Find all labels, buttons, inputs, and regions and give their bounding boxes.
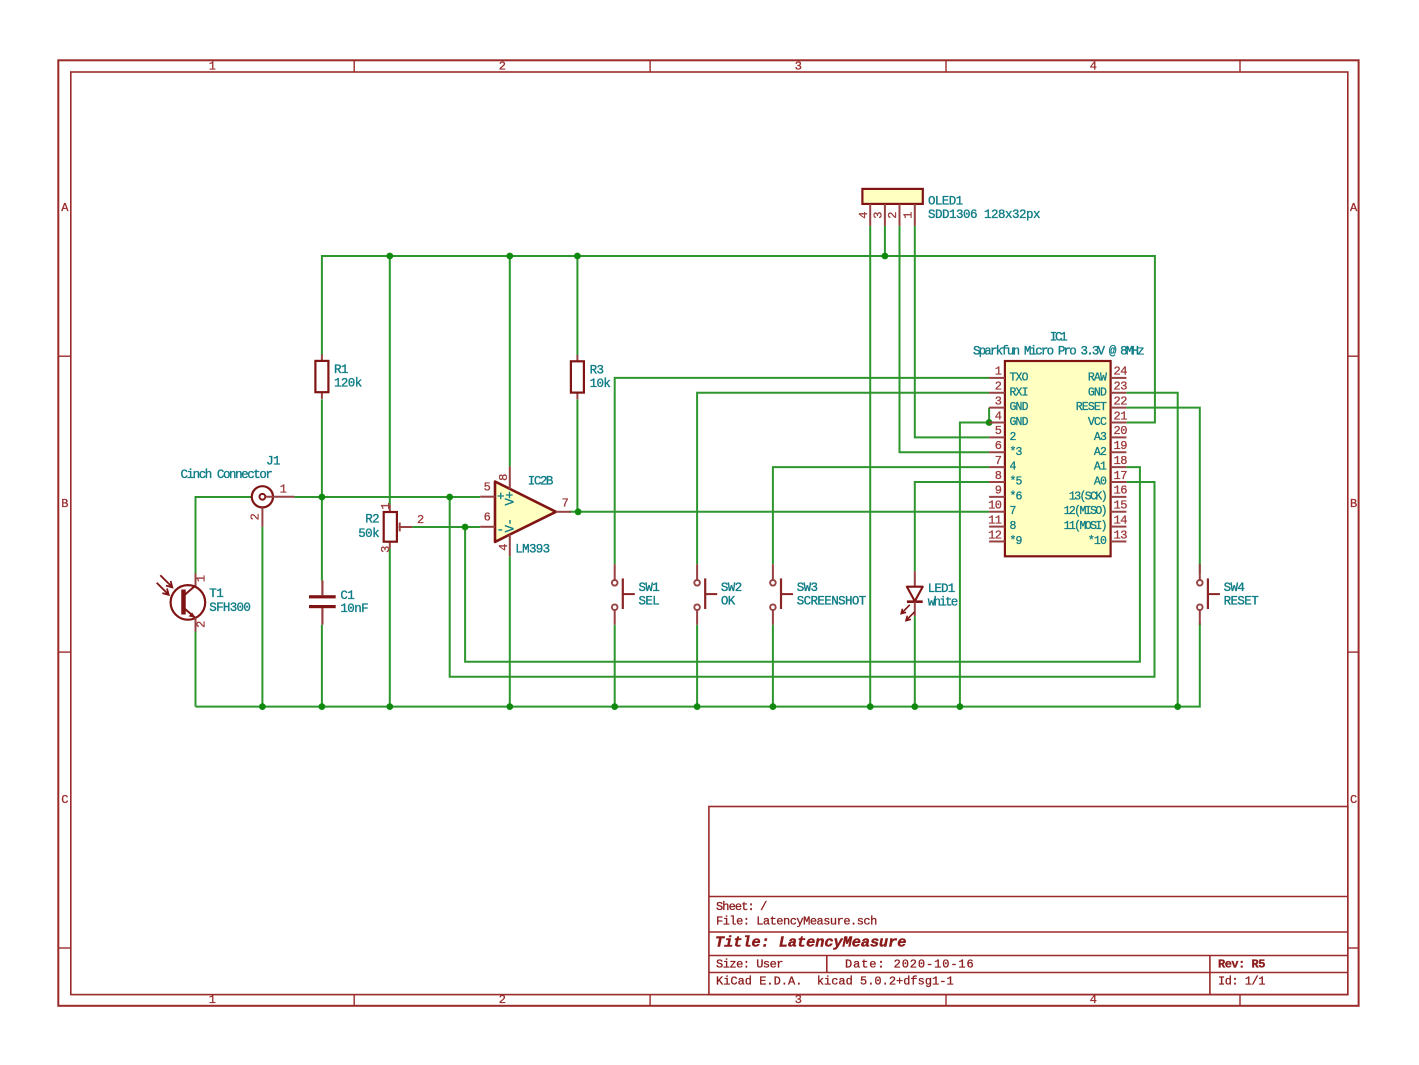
svg-text:3: 3 xyxy=(379,546,393,553)
svg-text:2: 2 xyxy=(499,993,506,1007)
frame row labels A-C left/right xyxy=(61,201,1358,807)
svg-text:1: 1 xyxy=(209,60,216,74)
wire OLED1 pin4 to GND bus xyxy=(869,226,871,707)
switch SW4 xyxy=(1197,564,1259,625)
wire IC1 pin7 to SW3 xyxy=(773,467,989,564)
svg-text:2: 2 xyxy=(995,380,1002,394)
svg-text:4: 4 xyxy=(497,544,511,551)
svg-text:13(SCK): 13(SCK) xyxy=(1069,490,1106,503)
svg-text:SW4: SW4 xyxy=(1224,581,1245,595)
svg-text:A1: A1 xyxy=(1094,461,1107,474)
svg-text:*6: *6 xyxy=(1010,490,1023,503)
svg-text:15: 15 xyxy=(1114,499,1128,513)
svg-text:A2: A2 xyxy=(1094,446,1107,459)
svg-text:23: 23 xyxy=(1114,380,1128,394)
svg-text:1: 1 xyxy=(995,365,1002,379)
svg-text:8: 8 xyxy=(1010,520,1017,533)
LED LED1 xyxy=(901,571,958,620)
svg-text:SFH300: SFH300 xyxy=(209,601,250,615)
wire IC1 pin2 RXI to SW2 xyxy=(697,393,989,564)
svg-text:6: 6 xyxy=(484,511,491,525)
svg-text:120k: 120k xyxy=(334,377,362,391)
svg-text:OLED1: OLED1 xyxy=(928,194,963,208)
svg-text:B: B xyxy=(1350,497,1357,511)
svg-text:C: C xyxy=(61,793,68,807)
svg-text:3: 3 xyxy=(995,394,1002,408)
svg-text:3: 3 xyxy=(872,212,886,219)
svg-text:LM393: LM393 xyxy=(515,543,549,557)
svg-text:*9: *9 xyxy=(1010,535,1023,548)
svg-text:SCREENSHOT: SCREENSHOT xyxy=(797,595,867,609)
wire R2 wiper to op-amp pin6 xyxy=(412,526,480,528)
svg-text:8: 8 xyxy=(497,474,511,481)
svg-text:12(MISO): 12(MISO) xyxy=(1064,505,1106,518)
potentiometer R2 xyxy=(358,503,424,553)
svg-text:SDD1306 128x32px: SDD1306 128x32px xyxy=(928,208,1040,222)
phototransistor T1 xyxy=(157,574,251,632)
svg-text:3: 3 xyxy=(795,60,802,74)
svg-text:GND: GND xyxy=(1088,386,1107,399)
svg-text:19: 19 xyxy=(1114,439,1128,453)
svg-text:4: 4 xyxy=(1010,461,1017,474)
wire OLED1 pin1 to IC1 pin5 xyxy=(915,226,989,437)
svg-text:12: 12 xyxy=(988,528,1002,542)
svg-text:1: 1 xyxy=(209,993,216,1007)
wire IC1 pin22 RESET to SW4 xyxy=(1126,408,1199,574)
svg-text:SEL: SEL xyxy=(639,595,660,609)
svg-text:5: 5 xyxy=(484,481,491,495)
IC U1 Sparkfun Micro Pro xyxy=(973,331,1144,557)
svg-text:V-: V- xyxy=(503,519,517,533)
svg-text:GND: GND xyxy=(1010,401,1029,414)
svg-text:Sparkfun Micro Pro 3.3V @ 8MHz: Sparkfun Micro Pro 3.3V @ 8MHz xyxy=(973,344,1144,358)
svg-text:1: 1 xyxy=(195,575,209,582)
wire top VCC bus R1 to IC1 pin 21 xyxy=(322,256,1155,423)
svg-text:7: 7 xyxy=(562,496,569,510)
svg-text:2: 2 xyxy=(886,212,900,219)
svg-text:10: 10 xyxy=(988,499,1002,513)
svg-text:File: LatencyMeasure.sch: File: LatencyMeasure.sch xyxy=(716,915,877,929)
svg-text:21: 21 xyxy=(1114,409,1128,423)
wire SW2 to GND bus xyxy=(696,625,698,707)
switch SW3 xyxy=(770,564,867,625)
wire R3 bottom to op-amp output xyxy=(576,399,578,511)
frame column labels 1-4 top/bottom xyxy=(209,60,1097,1008)
svg-text:1: 1 xyxy=(379,503,393,510)
wire bottom GND bus xyxy=(196,623,1200,707)
switch SW2 xyxy=(694,564,741,625)
sheet inner border xyxy=(71,72,1348,995)
connector J1 cinch xyxy=(181,455,295,527)
resistor R1 xyxy=(315,355,361,399)
svg-text:11: 11 xyxy=(988,513,1002,527)
svg-text:13: 13 xyxy=(1114,528,1128,542)
svg-text:*5: *5 xyxy=(1010,475,1023,488)
svg-text:A3: A3 xyxy=(1094,431,1107,444)
svg-text:SW1: SW1 xyxy=(639,581,660,595)
wire J1 to T1 collector xyxy=(196,497,252,574)
svg-text:OK: OK xyxy=(721,595,736,609)
svg-text:2: 2 xyxy=(195,621,209,628)
wire op-amp pin6 node to IC1 pin18 A1 xyxy=(465,467,1140,662)
svg-text:Sheet: /: Sheet: / xyxy=(716,900,767,914)
wire op-amp pin8 V+ to top bus xyxy=(509,256,511,466)
wire LED1 cathode to GND bus xyxy=(914,616,916,707)
svg-text:2: 2 xyxy=(499,60,506,74)
svg-text:IC1: IC1 xyxy=(1050,331,1067,345)
svg-text:Cinch Connector: Cinch Connector xyxy=(181,468,273,482)
svg-text:*3: *3 xyxy=(1010,446,1023,459)
svg-text:GND: GND xyxy=(1010,416,1029,429)
svg-text:B: B xyxy=(61,497,68,511)
svg-text:1: 1 xyxy=(902,212,916,219)
svg-text:C1: C1 xyxy=(340,589,354,603)
svg-text:KiCad E.D.A. kicad 5.0.2+dfsg: KiCad E.D.A. kicad 5.0.2+dfsg1-1 xyxy=(716,975,954,989)
svg-text:9: 9 xyxy=(995,484,1002,498)
wire op-amp pin5 node to IC1 pin17 A0 xyxy=(450,482,1155,677)
svg-text:4: 4 xyxy=(1090,60,1097,74)
svg-text:18: 18 xyxy=(1114,454,1128,468)
svg-text:VCC: VCC xyxy=(1088,416,1107,429)
resistor R3 xyxy=(571,355,611,399)
svg-text:SW3: SW3 xyxy=(797,581,818,595)
svg-text:50k: 50k xyxy=(358,527,379,541)
svg-text:C: C xyxy=(1350,793,1357,807)
wire R3 top to top bus xyxy=(576,256,578,356)
title block outline xyxy=(709,807,1348,995)
wire IC1 pin8 to LED1 anode xyxy=(915,482,989,571)
wire IC1 pin1 TXO to SW1 xyxy=(615,378,989,564)
switch SW1 xyxy=(612,564,659,625)
wire IC1 pin23 GND to bottom bus xyxy=(1126,393,1177,707)
svg-text:R1: R1 xyxy=(334,363,348,377)
svg-text:14: 14 xyxy=(1114,513,1128,527)
wire op-amp pin4 V- to GND bus xyxy=(509,556,511,706)
svg-text:Title: LatencyMeasure: Title: LatencyMeasure xyxy=(715,934,906,952)
wire OLED1 pin2 to IC1 pin6 xyxy=(900,226,990,452)
wire node to C1 top xyxy=(321,497,323,581)
wire IC1 pin3 GND to pin4 junction xyxy=(988,408,990,423)
svg-text:J1: J1 xyxy=(266,455,280,469)
wire J1 pin2 down xyxy=(261,527,263,707)
svg-text:2: 2 xyxy=(1010,431,1017,444)
wire R1 bottom to node xyxy=(321,399,323,497)
svg-text:RAW: RAW xyxy=(1088,371,1107,384)
svg-text:RXI: RXI xyxy=(1010,386,1028,399)
svg-text:20: 20 xyxy=(1114,424,1128,438)
wire IC1 pin4 GND to bottom bus xyxy=(960,423,989,707)
wire junctions xyxy=(259,253,1181,710)
svg-text:4: 4 xyxy=(857,212,871,219)
capacitor C1 xyxy=(309,581,368,625)
wire R2 pin3 to GND bus xyxy=(389,549,391,707)
svg-text:8: 8 xyxy=(995,469,1002,483)
svg-text:RESET: RESET xyxy=(1224,595,1260,609)
svg-text:T1: T1 xyxy=(209,587,223,601)
svg-text:5: 5 xyxy=(995,424,1002,438)
wire R2 pin1 to top bus xyxy=(389,256,391,505)
wire op-amp output to IC1 pin10 xyxy=(569,511,989,513)
svg-text:V+: V+ xyxy=(503,492,517,506)
wire SW3 to GND bus xyxy=(772,625,774,707)
svg-text:11(MOSI): 11(MOSI) xyxy=(1064,520,1106,533)
svg-text:TXO: TXO xyxy=(1010,371,1029,384)
svg-text:17: 17 xyxy=(1114,469,1128,483)
svg-text:white: white xyxy=(928,595,958,609)
svg-text:10nF: 10nF xyxy=(340,602,368,616)
svg-text:LED1: LED1 xyxy=(928,582,955,596)
wire OLED1 pin3 to top bus xyxy=(884,226,886,256)
svg-text:R2: R2 xyxy=(365,513,379,527)
svg-text:R3: R3 xyxy=(590,364,604,378)
wire SW1 to GND bus xyxy=(614,625,616,707)
svg-text:SW2: SW2 xyxy=(721,581,742,595)
svg-text:Size: User: Size: User xyxy=(716,958,783,972)
wire C1 bottom to GND bus xyxy=(321,625,323,707)
op-amp IC2B LM393 xyxy=(480,466,571,556)
svg-text:Id: 1/1: Id: 1/1 xyxy=(1218,975,1265,989)
svg-text:22: 22 xyxy=(1114,394,1128,408)
svg-text:Date: 2020-10-16: Date: 2020-10-16 xyxy=(845,958,975,972)
wire T1 emitter to GND bus xyxy=(195,632,197,707)
svg-text:*10: *10 xyxy=(1088,535,1107,548)
svg-text:IC2B: IC2B xyxy=(528,475,554,489)
svg-text:A0: A0 xyxy=(1094,475,1107,488)
svg-text:6: 6 xyxy=(995,439,1002,453)
wire J1 pin1 to op-amp pin5 xyxy=(294,496,480,498)
svg-text:10k: 10k xyxy=(590,377,611,391)
svg-text:2: 2 xyxy=(417,513,424,527)
svg-text:24: 24 xyxy=(1114,365,1128,379)
svg-text:RESET: RESET xyxy=(1076,401,1107,414)
svg-text:1: 1 xyxy=(280,483,287,497)
svg-text:Rev: R5: Rev: R5 xyxy=(1218,958,1265,972)
svg-text:4: 4 xyxy=(995,409,1002,423)
svg-text:2: 2 xyxy=(248,513,262,520)
svg-text:7: 7 xyxy=(995,454,1002,468)
connector OLED1 xyxy=(857,189,1040,226)
svg-text:16: 16 xyxy=(1114,484,1128,498)
svg-text:7: 7 xyxy=(1010,505,1016,518)
